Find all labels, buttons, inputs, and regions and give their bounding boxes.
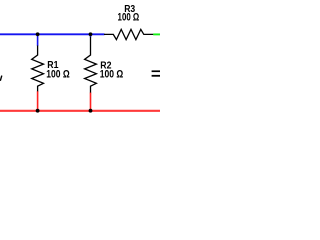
svg-text:100 Ω: 100 Ω [118,12,140,24]
junction dot: top node at R2 [89,32,93,36]
wire: R2 bottom lead (red) [90,93,92,111]
svg-text:100 Ω: 100 Ω [100,69,124,81]
wire: R1 bottom lead (red) [37,91,39,111]
resistor R3 [104,29,153,39]
wire: top net (blue) from left edge to R3 left lead [0,33,105,35]
junction dot: bottom node at R2 [89,109,93,113]
label: cropped "=" sign at right edge [152,70,160,72]
wire: R2 top lead (blue) [90,34,92,37]
wire: R3 output segment (green) to right edge [153,33,160,35]
resistor R1 [32,46,44,92]
svg-text:100 Ω: 100 Ω [46,69,70,81]
resistor R2 [85,37,97,93]
junction dot: bottom node at R1 [36,109,40,113]
label: cropped "V" of source label at left edge [0,76,2,81]
wire: bottom rail (red) full width [0,110,160,112]
wire: R1 top lead (blue) [37,34,39,46]
junction dot: top node at R1 [36,32,40,36]
